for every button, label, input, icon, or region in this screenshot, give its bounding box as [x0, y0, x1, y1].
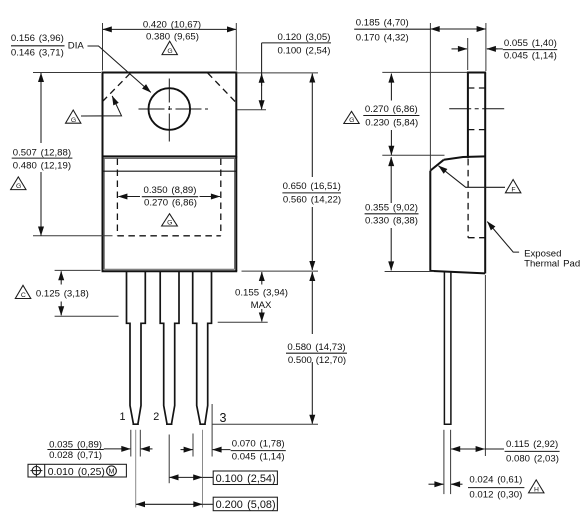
dimension 0.115/0.080 lead offset: [444, 275, 560, 494]
svg-text:G: G: [349, 117, 354, 124]
pin 3 center extension line: [202, 430, 204, 508]
svg-text:0.200 (5,08): 0.200 (5,08): [216, 499, 276, 511]
note triangle G under 0.420: [162, 41, 177, 55]
svg-text:0.420 (10,67): 0.420 (10,67): [143, 20, 201, 31]
svg-text:0.270 (6,86): 0.270 (6,86): [144, 197, 197, 208]
svg-text:0.055 (1,40): 0.055 (1,40): [504, 38, 557, 49]
svg-text:0.080 (2,03): 0.080 (2,03): [506, 453, 559, 464]
note triangle H beside 0.024: [529, 480, 545, 494]
thermal pad hidden boundary (dashed) side view: [468, 159, 485, 238]
svg-text:0.650 (16,51): 0.650 (16,51): [283, 181, 341, 192]
svg-text:0.028 (0,71): 0.028 (0,71): [49, 450, 102, 461]
svg-text:0.035 (0,89): 0.035 (0,89): [49, 439, 102, 450]
svg-text:MAX: MAX: [251, 300, 272, 311]
svg-text:0.355 (9,02): 0.355 (9,02): [365, 203, 418, 214]
svg-text:Thermal Pad: Thermal Pad: [524, 259, 580, 270]
body outline side view: [430, 156, 485, 273]
dimension 0.070/0.045 shoulder width: [181, 404, 286, 463]
thermal pad boundary (dashed rectangle): [117, 159, 220, 236]
hole centerline side view: [449, 108, 506, 110]
dimension 0.125 shoulder min: [36, 270, 119, 316]
svg-text:0.270 (6,86): 0.270 (6,86): [365, 104, 418, 115]
pin 3 outline: [193, 271, 212, 424]
svg-text:0.045 (1,14): 0.045 (1,14): [504, 50, 557, 61]
dimension 0.055/0.045 tab thickness: [452, 38, 558, 70]
exposed thermal pad callout: [487, 222, 580, 270]
svg-text:0.012 (0,30): 0.012 (0,30): [469, 490, 522, 501]
lead side view: [444, 272, 451, 425]
svg-text:0.100 (2,54): 0.100 (2,54): [278, 45, 331, 56]
svg-text:3: 3: [220, 411, 227, 425]
svg-text:0.170 (4,32): 0.170 (4,32): [356, 32, 409, 43]
dimension 0.270/0.230 tab height: [363, 72, 467, 155]
dimension 0.350/0.270 thermal pad width: [118, 185, 219, 208]
svg-text:0.380 (9,65): 0.380 (9,65): [146, 31, 199, 42]
svg-text:0.070 (1,78): 0.070 (1,78): [232, 439, 285, 450]
dimension 0.185/0.170 body depth: [354, 17, 486, 170]
svg-text:0.156 (3,96): 0.156 (3,96): [11, 33, 64, 44]
dimension 0.155 MAX shoulder: [218, 271, 318, 322]
dimension 0.580/0.500 lead length: [212, 272, 347, 424]
dimension 0.507/0.480 height: [12, 73, 113, 236]
dimension 0.156/0.146 DIA hole: [11, 33, 151, 92]
dimension 0.200 span (boxed): [136, 497, 277, 511]
svg-text:0.024 (0,61): 0.024 (0,61): [469, 475, 522, 486]
note triangle G with leader to left chamfer: [66, 96, 122, 124]
pin 2 center extension line: [168, 435, 170, 484]
svg-text:G: G: [16, 183, 21, 190]
dimension 0.420/0.380 tab width: [103, 20, 237, 71]
svg-text:H: H: [534, 487, 539, 494]
svg-text:F: F: [511, 186, 515, 193]
svg-text:C: C: [21, 292, 26, 299]
true position feature control frame: [28, 464, 126, 478]
svg-text:0.350 (8,89): 0.350 (8,89): [144, 185, 197, 196]
dimension 0.035/0.028 lead width: [47, 430, 152, 461]
pin 1 outline: [127, 271, 146, 424]
svg-text:0.146 (3,71): 0.146 (3,71): [11, 48, 64, 59]
svg-text:2: 2: [153, 411, 159, 423]
dimension 0.100 pitch (boxed): [170, 471, 278, 485]
note triangle G under 0.350: [162, 214, 178, 227]
svg-text:0.480 (12,19): 0.480 (12,19): [13, 160, 71, 171]
hole hidden lines (dashed) side view: [468, 87, 485, 89]
svg-text:0.115 (2,92): 0.115 (2,92): [506, 439, 558, 450]
svg-text:G: G: [167, 220, 172, 227]
svg-text:0.507 (12,88): 0.507 (12,88): [13, 147, 71, 158]
svg-text:0.010 (0,25): 0.010 (0,25): [48, 467, 105, 478]
svg-text:M: M: [109, 467, 115, 476]
note triangle F with leader to chamfer: [439, 166, 521, 194]
svg-text:0.230 (5,84): 0.230 (5,84): [365, 118, 418, 129]
svg-text:DIA: DIA: [68, 40, 85, 51]
note triangle C beside 0.125: [15, 285, 30, 299]
svg-text:0.500 (12,70): 0.500 (12,70): [288, 355, 346, 366]
dimension 0.024/0.012 lead thickness: [429, 475, 525, 501]
pin 1 center extension line: [135, 430, 137, 508]
svg-text:0.125 (3,18): 0.125 (3,18): [36, 289, 89, 300]
svg-text:0.155 (3,94): 0.155 (3,94): [235, 288, 288, 299]
note triangle G under 0.507: [11, 177, 26, 190]
mounting hole: [149, 88, 191, 130]
hole horizontal centerline: [139, 108, 209, 110]
left corner chamfer (dashed): [103, 73, 131, 102]
svg-text:0.185 (4,70): 0.185 (4,70): [356, 17, 409, 28]
svg-text:0.580 (14,73): 0.580 (14,73): [287, 342, 345, 353]
hole vertical centerline: [168, 79, 170, 142]
svg-text:0.100 (2,54): 0.100 (2,54): [216, 473, 276, 485]
tab outline front view: [103, 73, 237, 159]
tab outline side view: [467, 73, 486, 274]
svg-text:G: G: [71, 117, 76, 124]
svg-text:G: G: [167, 48, 172, 55]
svg-text:0.120 (3,05): 0.120 (3,05): [278, 32, 331, 43]
right corner chamfer (dashed): [208, 73, 237, 103]
dimension 0.650/0.560 overall body: [282, 74, 341, 271]
svg-text:0.560 (14,22): 0.560 (14,22): [283, 194, 341, 205]
dimension 0.355/0.330 body height: [365, 157, 434, 271]
body outline front view: [102, 156, 238, 271]
dimension 0.120/0.100 hole center: [236, 32, 331, 110]
svg-text:0.330 (8,38): 0.330 (8,38): [365, 215, 418, 226]
svg-text:1: 1: [119, 411, 125, 423]
svg-text:0.045 (1,14): 0.045 (1,14): [232, 452, 285, 463]
note triangle G beside 0.270: [344, 111, 359, 124]
pin 2 outline: [160, 271, 179, 424]
